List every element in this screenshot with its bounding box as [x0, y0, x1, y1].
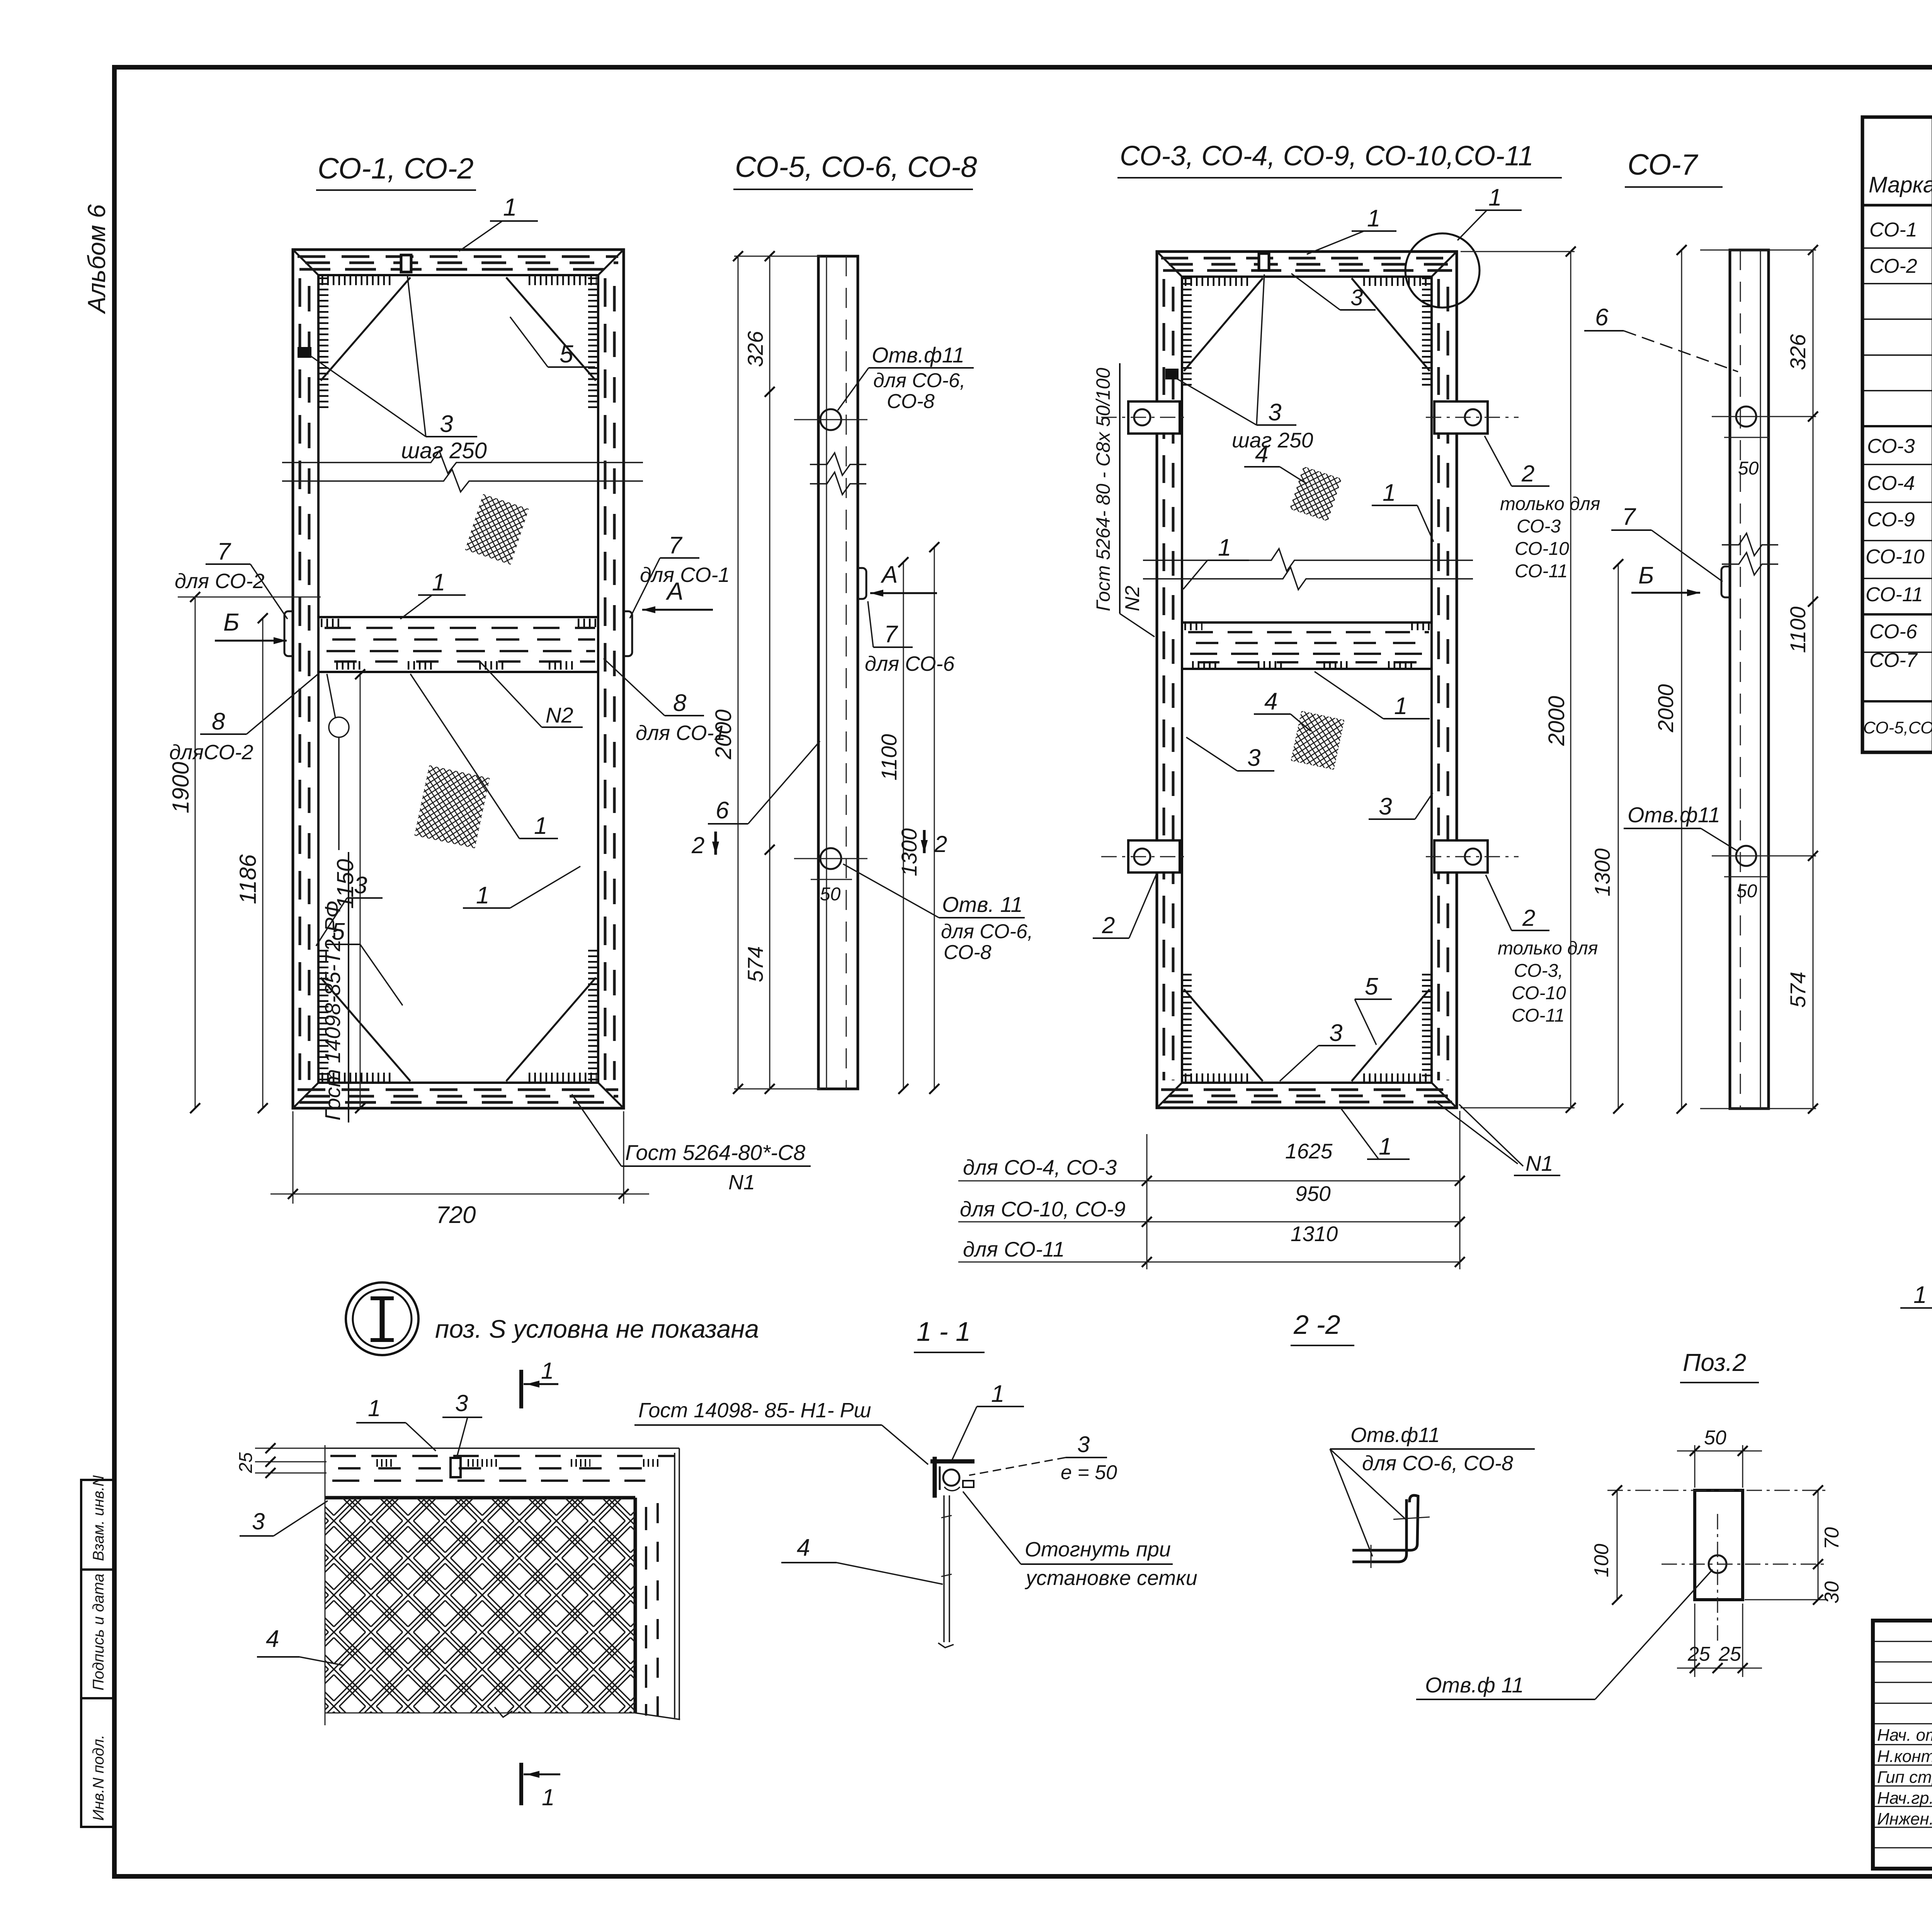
svg-text:СО-3, СО-4, СО-9, СО-10,СО-11: СО-3, СО-4, СО-9, СО-10,СО-11	[1120, 141, 1534, 172]
svg-text:8: 8	[212, 708, 225, 735]
bar break zigzag	[1722, 533, 1778, 556]
corner miter lines	[1157, 252, 1457, 1108]
section mark 1 bottom	[519, 1763, 523, 1805]
dim line 2000 right	[1570, 252, 1571, 1108]
centerline vertical	[1717, 1514, 1718, 1644]
svg-text:для СО-2: для СО-2	[175, 570, 265, 593]
svg-text:1300: 1300	[897, 828, 921, 876]
top bar hatch	[1161, 258, 1452, 270]
dim 50 under lower hole	[811, 879, 852, 880]
svg-text:6: 6	[716, 797, 729, 824]
section mark 1 top	[519, 1370, 523, 1408]
svg-text:Инжен.: Инжен.	[1877, 1810, 1932, 1828]
mesh patch lower	[414, 765, 490, 848]
svg-text:326: 326	[743, 331, 767, 367]
svg-text:е = 50: е = 50	[1061, 1461, 1117, 1484]
top clip item 3	[401, 255, 411, 272]
detail circle I	[1405, 233, 1480, 308]
svg-text:2: 2	[934, 831, 947, 857]
svg-text:СО-7: СО-7	[1628, 148, 1698, 181]
svg-text:СО-7: СО-7	[1869, 649, 1918, 672]
angle profile	[1352, 1495, 1418, 1550]
svg-text:1: 1	[1218, 534, 1231, 561]
svg-text:СО-3: СО-3	[1867, 435, 1915, 457]
svg-text:Инв.N подл.: Инв.N подл.	[90, 1735, 107, 1821]
svg-text:СО-3,: СО-3,	[1514, 961, 1563, 981]
frame inner rect	[318, 275, 598, 1083]
svg-text:А: А	[665, 577, 684, 605]
hinge tab left	[284, 611, 293, 656]
dim line 1186	[262, 618, 264, 1108]
svg-text:только для: только для	[1500, 494, 1600, 514]
svg-text:СО-10: СО-10	[1515, 539, 1569, 559]
dim line 2000	[1681, 250, 1682, 1109]
break lines with zigzag	[1143, 549, 1473, 571]
svg-text:Н.контр: Н.контр	[1877, 1747, 1932, 1766]
dim line 2000 left	[738, 256, 739, 1089]
dim 720 bottom	[293, 1111, 294, 1204]
svg-text:3: 3	[1350, 285, 1363, 310]
dim 25 25 left	[255, 1448, 327, 1449]
svg-text:Гост 5264-80*-С8: Гост 5264-80*-С8	[625, 1140, 805, 1165]
left clip item 3	[1165, 369, 1179, 379]
svg-text:3: 3	[354, 872, 367, 899]
dim line 326 574 left	[769, 256, 770, 1089]
dim 25 25 bottom	[1694, 1604, 1696, 1677]
svg-text:СО-8: СО-8	[887, 390, 935, 413]
svg-text:4: 4	[266, 1626, 279, 1652]
svg-text:СО-2: СО-2	[1869, 255, 1917, 277]
svg-text:N2: N2	[1121, 585, 1144, 611]
hole upper	[820, 409, 841, 430]
middle bar weld combs	[1184, 626, 1430, 665]
clip assembly	[930, 1459, 975, 1464]
svg-text:Отв.ф11: Отв.ф11	[872, 343, 964, 367]
svg-text:720: 720	[436, 1202, 476, 1228]
svg-text:СО-9: СО-9	[1867, 509, 1915, 531]
svg-text:1: 1	[541, 1358, 554, 1384]
svg-text:СО-10: СО-10	[1512, 983, 1566, 1003]
svg-text:Нач. отд.: Нач. отд.	[1877, 1726, 1932, 1745]
svg-text:СО-11: СО-11	[1866, 583, 1923, 606]
svg-text:Отогнуть при: Отогнуть при	[1025, 1538, 1171, 1561]
svg-text:для СО-6, СО-8: для СО-6, СО-8	[1362, 1452, 1513, 1475]
svg-text:Гост 14098- 85- Н1- Рш: Гост 14098- 85- Н1- Рш	[638, 1399, 871, 1422]
svg-text:1: 1	[1488, 184, 1502, 211]
bar dashed centerline	[846, 256, 847, 1089]
svg-text:4: 4	[1264, 688, 1277, 715]
svg-text:3: 3	[1329, 1020, 1342, 1046]
svg-text:4: 4	[1255, 441, 1268, 468]
circled I mark	[346, 1282, 418, 1355]
svg-text:1: 1	[1379, 1133, 1392, 1160]
svg-text:1625: 1625	[1285, 1139, 1333, 1163]
svg-text:7: 7	[1622, 503, 1636, 530]
dim 50 upper hole	[1724, 437, 1769, 438]
svg-text:1300: 1300	[1590, 848, 1614, 896]
svg-text:3: 3	[252, 1509, 265, 1534]
mesh top bar	[325, 1447, 679, 1449]
svg-text:для СО-6,: для СО-6,	[873, 369, 965, 392]
svg-text:2000: 2000	[1544, 696, 1569, 746]
dim line 1100 right	[903, 562, 904, 1089]
svg-text:4: 4	[797, 1534, 810, 1561]
dim line 1900	[195, 597, 196, 1108]
frame outer rect	[1157, 252, 1457, 1108]
svg-text:дляСО-2: дляСО-2	[169, 741, 253, 764]
svg-text:50: 50	[1704, 1427, 1726, 1449]
svg-text:3: 3	[455, 1390, 468, 1416]
svg-text:3: 3	[1247, 745, 1260, 771]
svg-text:2000: 2000	[1653, 684, 1678, 733]
corner miter lines	[293, 250, 624, 1108]
svg-text:для СО-6: для СО-6	[865, 652, 955, 675]
svg-text:1: 1	[542, 1784, 554, 1810]
svg-text:1: 1	[1913, 1282, 1927, 1308]
svg-text:шаг 250: шаг 250	[1232, 428, 1313, 452]
dim line right 326 1100 574	[1813, 250, 1814, 1109]
bar CO-5 outline	[818, 256, 858, 1089]
svg-text:1900: 1900	[168, 762, 194, 813]
bracket item 2 right upper	[1434, 401, 1488, 434]
svg-text:СО-5,СО-8: СО-5,СО-8	[1863, 718, 1932, 737]
middle bar weld combs	[321, 623, 597, 665]
svg-text:для СО-10, СО-9: для СО-10, СО-9	[960, 1197, 1126, 1221]
table grid	[1862, 117, 1932, 752]
hole upper	[1736, 406, 1756, 427]
svg-text:1: 1	[503, 193, 517, 221]
svg-text:Гост 5264- 80 - С8х 50/100: Гост 5264- 80 - С8х 50/100	[1092, 368, 1114, 611]
middle bar item 1	[1182, 622, 1432, 669]
svg-text:Отв. 11: Отв. 11	[942, 892, 1023, 917]
svg-text:Б: Б	[1638, 562, 1654, 589]
svg-text:25: 25	[236, 1452, 256, 1473]
svg-text:для СО-11: для СО-11	[963, 1237, 1065, 1261]
svg-text:установке сетки: установке сетки	[1024, 1566, 1197, 1590]
svg-text:N1: N1	[728, 1171, 755, 1194]
middle bar item 1	[318, 617, 598, 672]
svg-text:574: 574	[743, 946, 767, 982]
svg-text:70: 70	[1821, 1527, 1843, 1549]
top bar hatch	[298, 257, 618, 269]
svg-text:СО-11: СО-11	[1512, 1005, 1565, 1026]
svg-text:50: 50	[1738, 458, 1759, 479]
dim line 1150	[360, 674, 361, 1108]
svg-text:30: 30	[1821, 1581, 1843, 1604]
left margin cells	[81, 1480, 114, 1827]
bottom bar hatch	[298, 1090, 618, 1102]
svg-text:3: 3	[1077, 1432, 1090, 1457]
mini table extension lines	[1146, 1134, 1148, 1269]
mesh patch upper	[465, 494, 529, 565]
break lines with zigzag	[282, 451, 643, 473]
svg-text:1100: 1100	[877, 734, 901, 781]
table rows block 1	[1869, 216, 1932, 420]
svg-text:7: 7	[217, 538, 231, 565]
svg-text:1: 1	[534, 813, 547, 839]
rod item 4	[943, 1495, 945, 1642]
svg-text:3: 3	[1379, 793, 1392, 820]
plate hole	[1709, 1555, 1726, 1573]
centerline horizontal top	[1607, 1490, 1828, 1491]
svg-text:А: А	[880, 561, 898, 588]
frame inner rect	[1182, 277, 1432, 1083]
dim 100 left	[1617, 1490, 1618, 1600]
svg-text:1: 1	[368, 1395, 381, 1421]
svg-text:для СО-4, СО-3: для СО-4, СО-3	[963, 1155, 1117, 1179]
table rows block 3	[1869, 620, 1932, 688]
svg-text:5: 5	[1365, 973, 1378, 1000]
mesh patch upper	[1290, 466, 1342, 521]
svg-text:поз. S условна не показана: поз. S условна не показана	[435, 1315, 759, 1343]
corner gusset diagonals	[321, 277, 596, 1081]
svg-text:1 - 1: 1 - 1	[917, 1316, 971, 1347]
svg-text:1: 1	[991, 1381, 1004, 1407]
svg-text:100: 100	[1590, 1544, 1613, 1577]
bar inner solid line	[1760, 250, 1761, 1109]
dim line 1300 right	[934, 547, 935, 1089]
svg-text:2: 2	[691, 832, 704, 858]
bracket item 2 right lower	[1434, 840, 1488, 872]
svg-text:Взам. инв.N: Взам. инв.N	[90, 1475, 107, 1561]
svg-text:Подпись и дата: Подпись и дата	[90, 1573, 107, 1690]
svg-text:СО-3: СО-3	[1517, 516, 1561, 537]
centerline horizontal hole	[1662, 1564, 1828, 1565]
svg-text:N1: N1	[1526, 1151, 1553, 1175]
svg-text:для СО-1: для СО-1	[640, 563, 730, 587]
svg-text:СО-6: СО-6	[1869, 621, 1917, 643]
mesh patch lower	[1291, 711, 1345, 770]
svg-text:1: 1	[1394, 693, 1407, 719]
svg-text:СО-1: СО-1	[1869, 219, 1917, 241]
table rows block 4	[1863, 713, 1932, 740]
dim 50 lower hole	[1724, 876, 1769, 878]
bottom bar hatch	[1161, 1090, 1452, 1102]
bracket item 2 left lower	[1128, 840, 1180, 872]
svg-text:только для: только для	[1498, 938, 1598, 959]
weld combs inner edges	[1185, 277, 1430, 1080]
dim 70 30 right	[1818, 1490, 1819, 1600]
svg-text:Б: Б	[223, 608, 240, 636]
weld combs side inner edges	[324, 277, 593, 1080]
svg-text:1186: 1186	[235, 854, 261, 904]
right bar hatch	[1439, 279, 1448, 1080]
svg-text:Марка: Марка	[1869, 172, 1932, 197]
hinge tab right	[624, 611, 632, 656]
top clip item 3	[1259, 253, 1269, 270]
svg-text:Нач.гр.: Нач.гр.	[1877, 1789, 1932, 1808]
svg-text:N2: N2	[546, 703, 573, 727]
svg-text:Отв.ф11: Отв.ф11	[1350, 1423, 1440, 1447]
svg-text:7: 7	[668, 532, 683, 559]
hole lower	[1736, 846, 1756, 866]
mesh right bar	[634, 1498, 637, 1713]
svg-text:1100: 1100	[1786, 607, 1810, 653]
svg-text:2: 2	[1102, 912, 1115, 938]
bracket item 2 left upper	[1128, 401, 1180, 434]
corner gusset diagonals	[1184, 278, 1430, 1081]
svg-text:Альбом 6: Альбом 6	[83, 204, 111, 315]
svg-text:25: 25	[1718, 1643, 1742, 1665]
hole lower	[820, 848, 841, 869]
svg-text:СО-5, СО-6, СО-8: СО-5, СО-6, СО-8	[735, 151, 977, 184]
right bar hatch	[605, 278, 614, 1080]
left bar hatch	[1164, 279, 1173, 1080]
svg-text:для СО-6,: для СО-6,	[941, 920, 1033, 943]
svg-text:3: 3	[440, 411, 453, 437]
svg-text:1: 1	[476, 882, 489, 909]
mesh left extension edge	[325, 1445, 326, 1725]
left bar hatch	[300, 278, 309, 1080]
svg-text:шаг 250: шаг 250	[401, 438, 487, 463]
left clip item 3	[298, 347, 311, 358]
svg-text:1310: 1310	[1291, 1222, 1338, 1246]
svg-text:СО-4: СО-4	[1867, 472, 1915, 495]
svg-text:950: 950	[1295, 1182, 1331, 1206]
weld combs top inner edge	[321, 281, 597, 1077]
svg-text:6: 6	[1595, 304, 1609, 331]
svg-text:2: 2	[1521, 461, 1534, 486]
svg-text:1: 1	[1383, 480, 1396, 506]
svg-text:СО-10: СО-10	[1866, 546, 1925, 568]
svg-text:2000: 2000	[711, 709, 736, 760]
svg-text:5: 5	[332, 918, 345, 945]
frame outer rect	[293, 250, 624, 1108]
bar CO-7 outline	[1730, 250, 1769, 1109]
svg-text:326: 326	[1786, 334, 1810, 370]
svg-text:50: 50	[820, 884, 841, 905]
svg-text:1: 1	[432, 569, 445, 596]
table rows block 2	[1866, 430, 1932, 607]
svg-text:Отв.ф 11: Отв.ф 11	[1425, 1673, 1524, 1697]
tab on left edge	[1721, 566, 1730, 597]
weld tick clusters on top bar	[376, 1459, 659, 1467]
svg-text:СО-11: СО-11	[1515, 561, 1568, 582]
mesh lattice	[325, 1498, 635, 1713]
svg-text:СО-1, СО-2: СО-1, СО-2	[318, 152, 474, 185]
svg-text:574: 574	[1786, 972, 1810, 1008]
svg-text:2 -2: 2 -2	[1293, 1310, 1340, 1340]
svg-text:2: 2	[1522, 905, 1535, 931]
svg-text:25: 25	[1687, 1643, 1711, 1665]
clip on top bar	[451, 1458, 461, 1477]
svg-text:СО-8: СО-8	[944, 941, 992, 964]
dim line 1300	[1618, 564, 1619, 1109]
dim 50 top	[1694, 1445, 1696, 1488]
bar inner solid line	[826, 256, 827, 1089]
signature labels	[1877, 1726, 1932, 1828]
plate rect	[1695, 1490, 1743, 1600]
svg-text:Отв.ф11: Отв.ф11	[1628, 803, 1720, 827]
bar break zigzag	[810, 453, 866, 475]
svg-text:8: 8	[673, 690, 687, 716]
svg-text:Гип стр.: Гип стр.	[1877, 1768, 1932, 1787]
tab on right edge	[858, 568, 866, 599]
mesh bottom edge	[325, 1713, 635, 1714]
svg-text:7: 7	[884, 621, 898, 648]
svg-text:3: 3	[1268, 399, 1281, 426]
bar dashed line	[1740, 250, 1741, 1109]
svg-text:1: 1	[1367, 205, 1380, 232]
svg-text:5: 5	[560, 340, 573, 368]
svg-text:50: 50	[1736, 881, 1757, 901]
svg-text:Поз.2: Поз.2	[1683, 1349, 1746, 1376]
